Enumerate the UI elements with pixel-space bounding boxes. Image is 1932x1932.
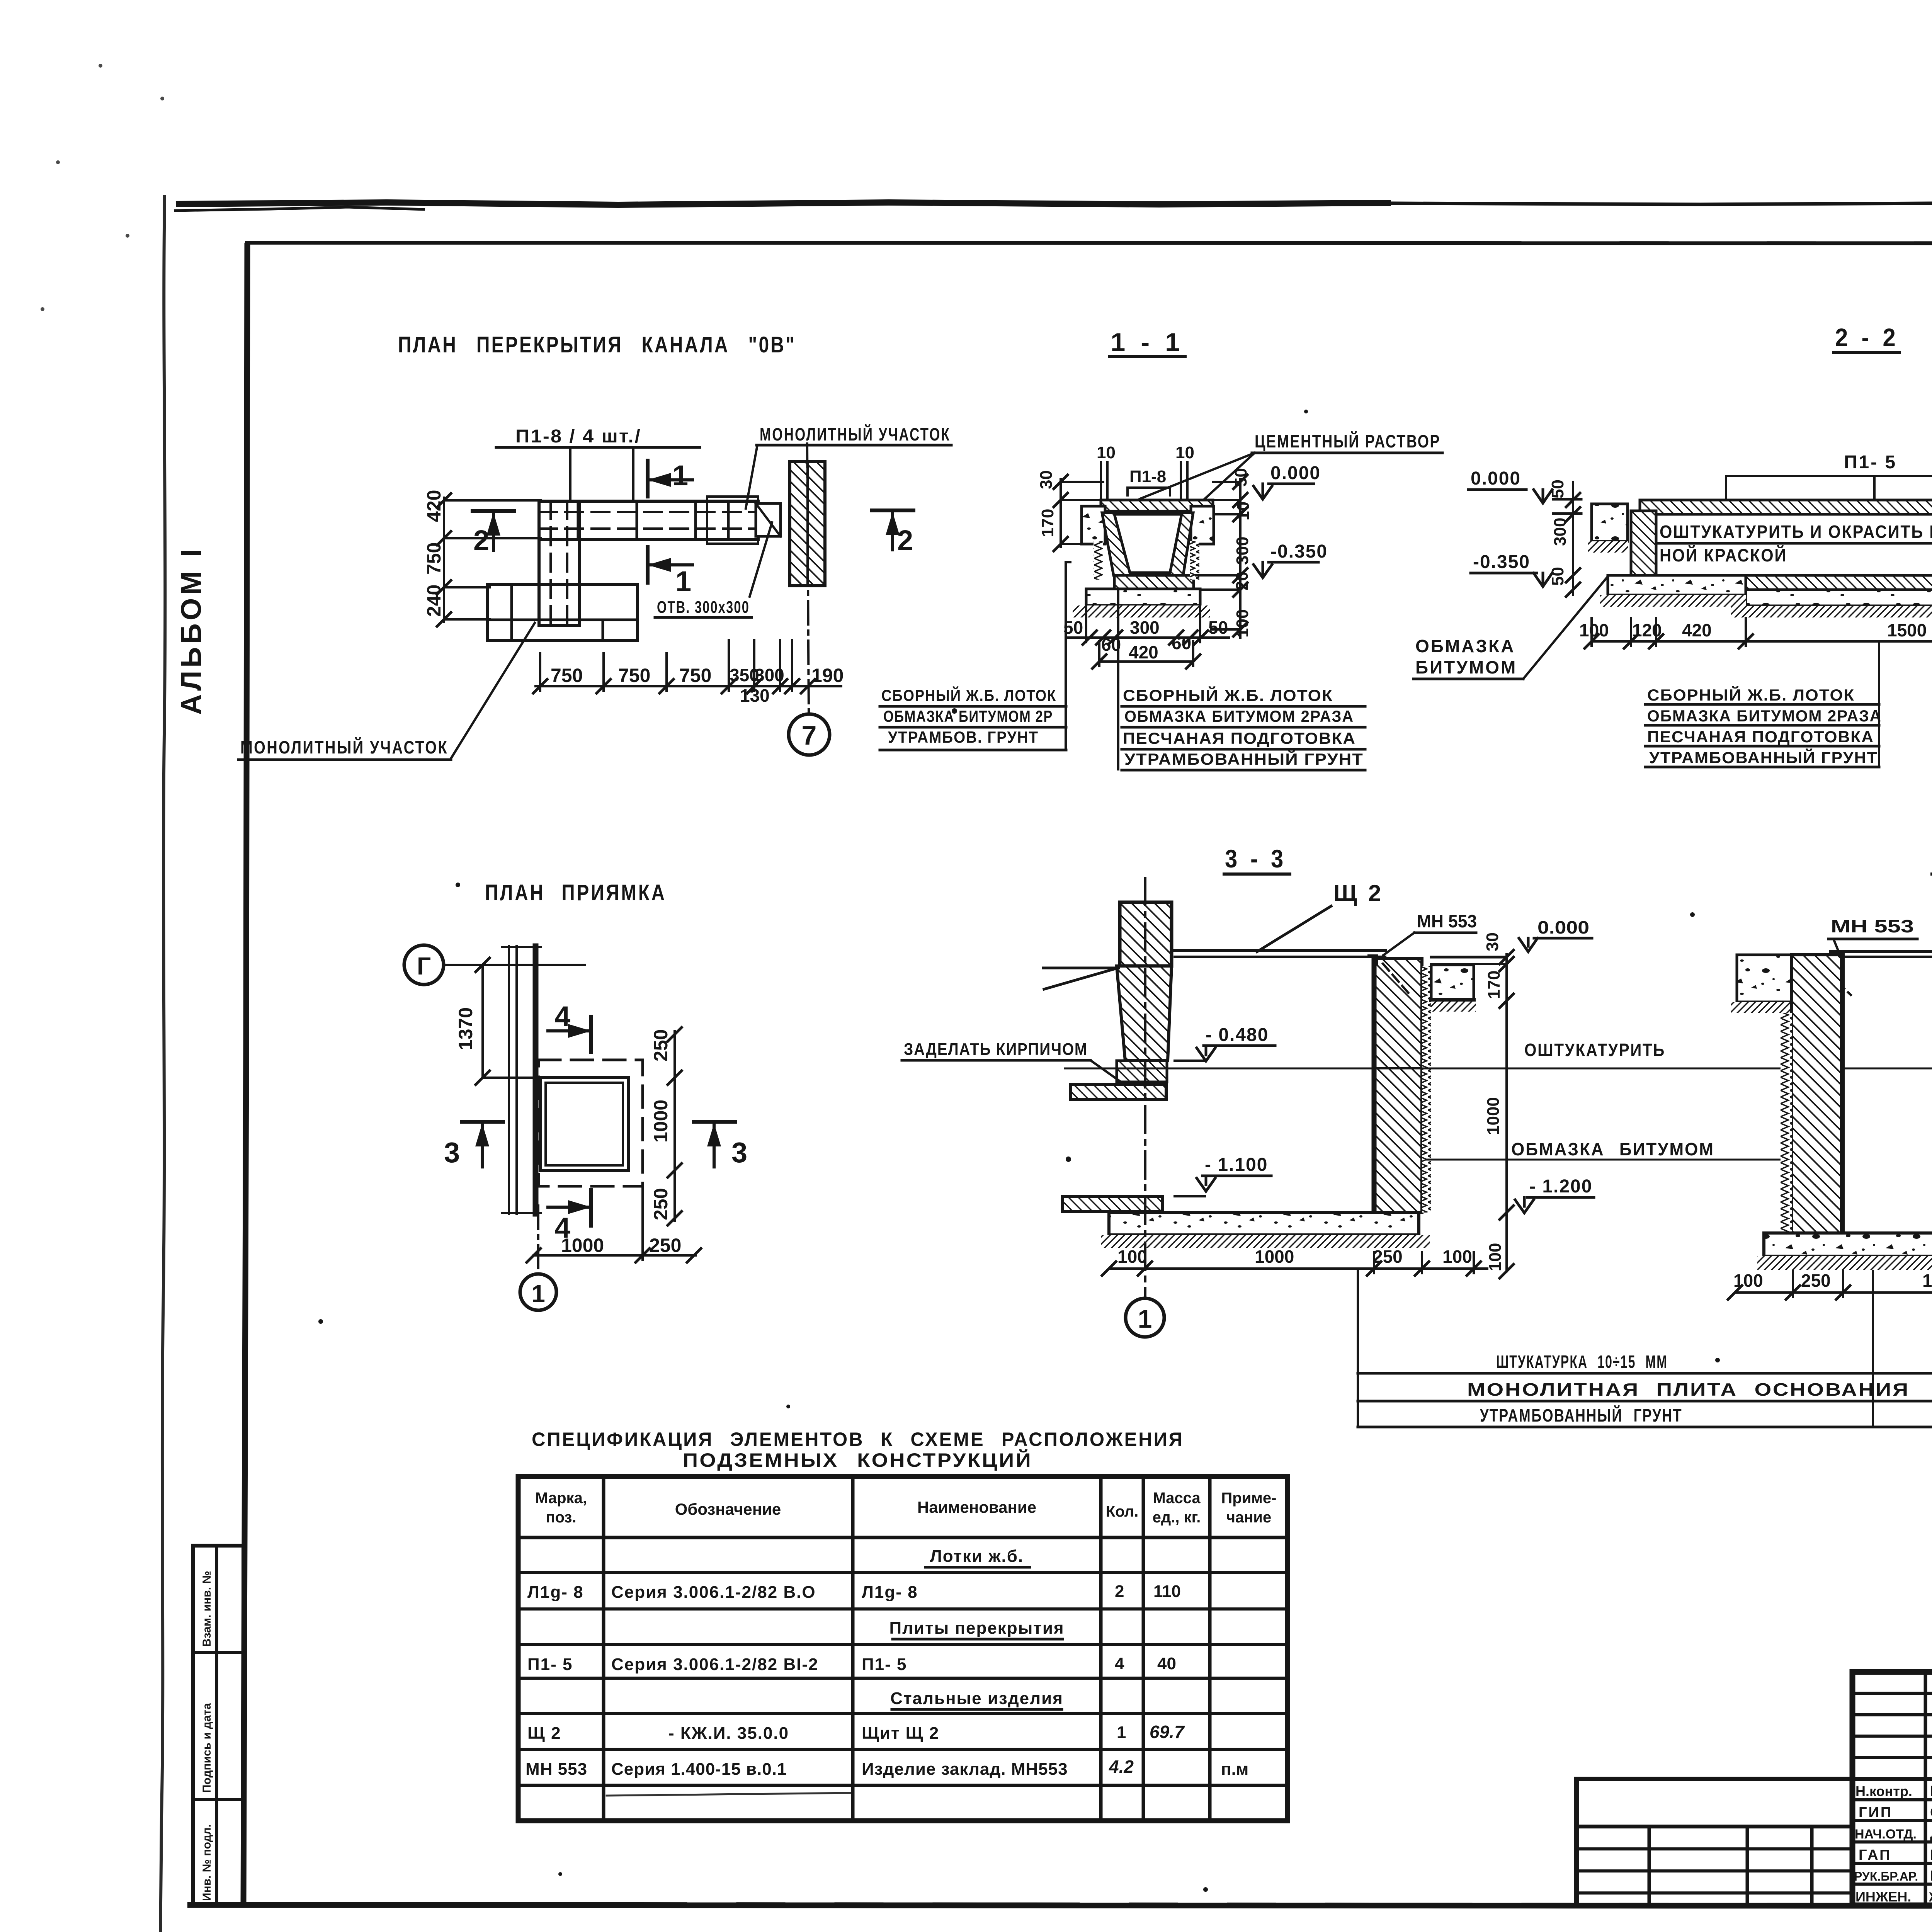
left floor slab [1737, 955, 1792, 1002]
svg-text:1000: 1000 [650, 1100, 672, 1143]
svg-text:МН 553: МН 553 [526, 1760, 587, 1779]
brick infill piece [1117, 1061, 1167, 1082]
axis bubble 1 [1126, 1298, 1164, 1337]
svg-text:100: 100 [1442, 1247, 1472, 1267]
svg-text:-0.350: -0.350 [1473, 552, 1530, 572]
svg-text:УТРАМБОВАННЫЙ ГРУНТ: УТРАМБОВАННЫЙ ГРУНТ [1649, 748, 1878, 767]
svg-text:ИНЖЕН.: ИНЖЕН. [1855, 1889, 1911, 1905]
axis line to bubble 1 [537, 1206, 539, 1274]
svg-text:100: 100 [1233, 609, 1252, 638]
shared line at plaster level [1065, 1068, 1932, 1070]
svg-text:750: 750 [618, 665, 650, 686]
svg-text:Приме-: Приме- [1221, 1490, 1277, 1507]
svg-text:1: 1 [675, 565, 691, 597]
svg-text:СПЕЦИФИКАЦИЯ ЭЛЕМЕНТОВ К СХЕМЕ: СПЕЦИФИКАЦИЯ ЭЛЕМЕНТОВ К СХЕМЕ РАСПОЛОЖЕ… [532, 1429, 1184, 1450]
svg-text:300: 300 [1130, 617, 1160, 638]
svg-text:100: 100 [1733, 1270, 1763, 1291]
floor slab right of pit wall [1431, 965, 1474, 1000]
left wall pier hatched [1631, 511, 1656, 579]
signature rows [1852, 1777, 1932, 1781]
svg-text:4: 4 [1115, 1654, 1124, 1673]
left extension table [1577, 1779, 1852, 1905]
svg-text:Щит Щ 2: Щит Щ 2 [862, 1724, 939, 1743]
svg-text:ОБМАЗКА БИТУМОМ 2РАЗА: ОБМАЗКА БИТУМОМ 2РАЗА [1124, 707, 1354, 725]
svg-text:50: 50 [1231, 468, 1250, 487]
svg-text:УТРАМБОВАННЫЙ ГРУНТ: УТРАМБОВАННЫЙ ГРУНТ [1480, 1405, 1682, 1425]
scanned paper left edge [160, 195, 165, 1932]
trough walls hatched [1102, 513, 1193, 575]
trough floor slab [1114, 575, 1194, 589]
pit wall inner square [546, 1083, 623, 1165]
svg-text:1: 1 [1117, 1723, 1126, 1742]
svg-text:250: 250 [1373, 1247, 1403, 1267]
svg-text:П1- 5: П1- 5 [1844, 452, 1897, 473]
svg-text:170: 170 [1485, 971, 1503, 999]
svg-text:ед., кг.: ед., кг. [1153, 1509, 1201, 1526]
bottom dim chain 1000/250 [534, 1254, 696, 1257]
svg-text:- 0.480: - 0.480 [1206, 1025, 1269, 1045]
svg-text:Пивоваров: Пивоваров [1930, 1868, 1932, 1884]
embed МН553 at wall top [1369, 956, 1377, 964]
svg-text:20: 20 [1233, 571, 1252, 590]
svg-text:Дроханов: Дроханов [1930, 1826, 1932, 1842]
pit outer dashed contour [539, 1060, 643, 1186]
pit right wall hatched [1374, 958, 1422, 1213]
backfill left [1781, 1013, 1792, 1236]
svg-text:Щ 2: Щ 2 [1333, 880, 1383, 906]
svg-text:Плиты перекрытия: Плиты перекрытия [889, 1619, 1064, 1638]
building floor slab (left, hatched) [1070, 1084, 1166, 1099]
right dim chain 250/1000/250 [673, 1031, 676, 1221]
svg-text:РУК.БР.АР.: РУК.БР.АР. [1854, 1869, 1918, 1883]
svg-text:0.000: 0.000 [1537, 917, 1589, 937]
channel horizontal band (plates П1-8) [539, 501, 758, 539]
right concrete block [1191, 506, 1214, 544]
svg-text:П1- 5: П1- 5 [527, 1655, 573, 1674]
svg-text:30: 30 [1483, 932, 1502, 951]
floor level continuation marks [1553, 498, 1581, 501]
svg-text:НАЧ.ОТД.: НАЧ.ОТД. [1855, 1827, 1917, 1842]
svg-text:БИТУМОМ: БИТУМОМ [1415, 657, 1517, 677]
svg-text:7: 7 [802, 720, 817, 750]
svg-text:МН 553: МН 553 [1417, 911, 1477, 931]
svg-text:Лотки ж.б.: Лотки ж.б. [930, 1547, 1024, 1566]
svg-text:Серия 3.006.1-2/82 ВI-2: Серия 3.006.1-2/82 ВI-2 [611, 1655, 819, 1674]
svg-text:100: 100 [1486, 1243, 1505, 1271]
svg-text:Марка,: Марка, [535, 1490, 587, 1507]
svg-text:250: 250 [1801, 1270, 1831, 1291]
svg-text:Взам. инв. №: Взам. инв. № [201, 1571, 213, 1647]
svg-text:П1- 5: П1- 5 [862, 1655, 907, 1674]
svg-text:ОТВ. 300х300: ОТВ. 300х300 [657, 598, 750, 617]
svg-text:1: 1 [531, 1280, 545, 1308]
tamped ground hatch [1073, 605, 1210, 617]
steel lid [1831, 950, 1932, 953]
svg-text:МОНОЛИТНЫЙ УЧАСТОК: МОНОЛИТНЫЙ УЧАСТОК [240, 737, 448, 757]
svg-text:300: 300 [1233, 537, 1252, 565]
channel vertical band [539, 501, 580, 626]
floor 0.000 line [1431, 956, 1507, 959]
tamped ground under pit floor [1101, 1235, 1430, 1248]
floor slab left segment [1608, 575, 1746, 595]
svg-text:Н.контр.: Н.контр. [1855, 1783, 1912, 1799]
scanned paper top edge smudge [176, 202, 1391, 205]
svg-text:Инв. № подл.: Инв. № подл. [201, 1824, 213, 1901]
svg-text:НОЙ КРАСКОЙ: НОЙ КРАСКОЙ [1660, 545, 1787, 565]
spec table outer border [518, 1476, 1287, 1821]
svg-text:190: 190 [811, 665, 844, 686]
svg-text:250: 250 [650, 1029, 672, 1061]
bitum coating marks right [1190, 541, 1199, 580]
right dim chain 50/10/300/20/100 [1239, 479, 1242, 638]
svg-text:1: 1 [1138, 1304, 1152, 1333]
wall centerline down to axis bubble [807, 444, 809, 713]
svg-text:Л1g- 8: Л1g- 8 [862, 1583, 918, 1602]
svg-text:100: 100 [1579, 620, 1609, 640]
svg-text:30: 30 [1037, 470, 1056, 489]
svg-text:3: 3 [444, 1136, 460, 1168]
svg-text:СБОРНЫЙ Ж.Б. ЛОТОК: СБОРНЫЙ Ж.Б. ЛОТОК [881, 686, 1056, 704]
svg-text:Л1g- 8: Л1g- 8 [527, 1583, 584, 1602]
svg-text:1000: 1000 [561, 1235, 604, 1256]
svg-text:750: 750 [423, 543, 445, 575]
opening отв.300х300 square [756, 503, 781, 536]
wall band [508, 946, 510, 1214]
scan smudge in last row [607, 1793, 850, 1796]
svg-text:1000: 1000 [1922, 1270, 1932, 1291]
pit wall outer square [540, 1078, 628, 1170]
svg-text:ОБМАЗКА БИТУМОМ: ОБМАЗКА БИТУМОМ [1511, 1139, 1714, 1159]
svg-text:ШТУКАТУРКА 10÷15 ММ: ШТУКАТУРКА 10÷15 ММ [1496, 1352, 1668, 1372]
svg-text:130: 130 [740, 685, 770, 706]
svg-text:ОШТУКАТУРИТЬ: ОШТУКАТУРИТЬ [1524, 1040, 1665, 1060]
svg-text:СБОРНЫЙ Ж.Б. ЛОТОК: СБОРНЫЙ Ж.Б. ЛОТОК [1647, 685, 1855, 704]
bottom dim chain [1592, 640, 1932, 643]
left dimension chain [443, 498, 445, 622]
drawing frame inner border [243, 243, 247, 1905]
svg-text:2: 2 [897, 524, 913, 556]
svg-text:Подпись и дата: Подпись и дата [201, 1703, 213, 1793]
svg-text:АЛЬБОМ I: АЛЬБОМ I [175, 546, 207, 715]
svg-text:ЗАДЕЛАТЬ КИРПИЧОМ: ЗАДЕЛАТЬ КИРПИЧОМ [904, 1040, 1088, 1059]
plate joints [577, 501, 580, 539]
svg-text:чание: чание [1226, 1509, 1271, 1526]
svg-text:ПЕСЧАНАЯ ПОДГОТОВКА: ПЕСЧАНАЯ ПОДГОТОВКА [1647, 728, 1874, 746]
svg-text:250: 250 [650, 1188, 672, 1220]
right dim chain of 3-3 [1505, 954, 1508, 1271]
lower-left floor slab (hatched) [1063, 1196, 1162, 1211]
svg-text:Кол.: Кол. [1106, 1503, 1138, 1520]
upper empty signature rows [1852, 1692, 1932, 1695]
title block outer border [1852, 1672, 1932, 1905]
svg-text:- 1.200: - 1.200 [1529, 1176, 1592, 1197]
axis bubble 7 [789, 714, 830, 755]
svg-text:4.2: 4.2 [1109, 1757, 1134, 1777]
pit floor slab [1764, 1233, 1932, 1256]
svg-text:10: 10 [1234, 502, 1253, 520]
section flag 1 (bottom) [646, 547, 650, 583]
svg-text:2: 2 [473, 524, 489, 556]
svg-text:п.м: п.м [1221, 1760, 1248, 1779]
svg-text:ГАП: ГАП [1859, 1847, 1891, 1863]
svg-text:ОБМАЗКА БИТУМОМ 2Р: ОБМАЗКА БИТУМОМ 2Р [883, 707, 1053, 725]
dim 420 line [1099, 660, 1193, 663]
row lines [518, 1536, 1287, 1539]
cast-in-place segment outline [707, 497, 758, 544]
steel lid Щ2 [1175, 949, 1385, 952]
svg-text:1: 1 [672, 459, 688, 492]
svg-text:69.7: 69.7 [1150, 1722, 1185, 1742]
svg-text:СБОРНЫЙ Ж.Б. ЛОТОК: СБОРНЫЙ Ж.Б. ЛОТОК [1123, 686, 1333, 704]
svg-text:Наименование: Наименование [917, 1498, 1036, 1516]
tamped ground under channel [1731, 606, 1932, 617]
svg-text:ПЛАН ПЕРЕКРЫТИЯ КАНАЛА "0В": ПЛАН ПЕРЕКРЫТИЯ КАНАЛА "0В" [398, 332, 796, 357]
sand bedding under channel [1746, 590, 1932, 606]
leader to notes (left) [1878, 641, 1880, 767]
channel floor slab hatched [1746, 575, 1932, 590]
svg-text:Шелаев: Шелаев [1930, 1847, 1932, 1863]
wall section hatched (right) [790, 462, 825, 586]
monolithic block lower left [488, 584, 638, 640]
svg-text:50: 50 [1548, 567, 1567, 586]
svg-text:170: 170 [1038, 509, 1057, 537]
svg-text:10: 10 [1175, 443, 1194, 462]
svg-text:ОБМАЗКА: ОБМАЗКА [1415, 636, 1515, 656]
svg-text:1500: 1500 [1887, 620, 1927, 640]
svg-text:Серия 1.400-15 в.0.1: Серия 1.400-15 в.0.1 [611, 1760, 787, 1779]
svg-text:250: 250 [649, 1235, 681, 1256]
svg-text:300: 300 [1551, 518, 1570, 546]
axis bubble 1 [520, 1274, 556, 1310]
svg-text:- КЖ.И. 35.0.0: - КЖ.И. 35.0.0 [668, 1724, 789, 1743]
svg-text:420: 420 [423, 490, 445, 522]
svg-text:УТРАМБОВАННЫЙ ГРУНТ: УТРАМБОВАННЫЙ ГРУНТ [1124, 750, 1364, 768]
shared line at bitumen level [1426, 1159, 1782, 1161]
svg-text:420: 420 [1129, 642, 1158, 662]
pit floor slab (monolithic) [1109, 1213, 1419, 1235]
svg-text:750: 750 [679, 665, 711, 686]
svg-text:ГИП: ГИП [1859, 1804, 1893, 1821]
svg-text:4: 4 [554, 1000, 570, 1032]
svg-text:Стальные изделия: Стальные изделия [890, 1689, 1063, 1708]
bitum coating marks left [1094, 541, 1103, 580]
bottom dimension chain [536, 685, 841, 687]
svg-text:Масса: Масса [1153, 1490, 1201, 1507]
svg-text:1000: 1000 [1255, 1247, 1294, 1267]
ground line left [1043, 967, 1119, 969]
left concrete block [1592, 504, 1628, 541]
bottom dim chain of 4-4 [1735, 1291, 1932, 1294]
svg-text:0.000: 0.000 [1471, 468, 1521, 489]
svg-text:МОНОЛИТНАЯ ПЛИТА ОСНОВАНИЯ: МОНОЛИТНАЯ ПЛИТА ОСНОВАНИЯ [1467, 1379, 1910, 1400]
svg-text:Жеребчикова: Жеребчикова [1929, 1890, 1932, 1905]
svg-text:0.000: 0.000 [1270, 463, 1321, 483]
svg-text:ОШТУКАТУРИТЬ И ОКРАСИТЬ МАСЛЯ-: ОШТУКАТУРИТЬ И ОКРАСИТЬ МАСЛЯ- [1660, 522, 1932, 542]
svg-text:1370: 1370 [455, 1007, 476, 1050]
section flag 1 (top) [646, 461, 650, 497]
svg-text:2 - 2: 2 - 2 [1835, 323, 1899, 352]
svg-text:ПЛАН ПРИЯМКА: ПЛАН ПРИЯМКА [485, 880, 667, 905]
axis bubble Г [404, 945, 444, 985]
axis centerline [1144, 878, 1146, 1298]
svg-text:Степанова: Степанова [1930, 1804, 1932, 1821]
svg-text:240: 240 [423, 585, 445, 617]
svg-text:ПОДЗЕМНЫХ КОНСТРУКЦИЙ: ПОДЗЕМНЫХ КОНСТРУКЦИЙ [683, 1449, 1032, 1471]
svg-text:10: 10 [1097, 443, 1116, 462]
pilaster tapering part [1117, 966, 1172, 1061]
top cover slab П1-8 hatched [1101, 500, 1213, 511]
svg-text:МН 553: МН 553 [1831, 916, 1914, 936]
svg-text:МОНОЛИТНЫЙ УЧАСТОК: МОНОЛИТНЫЙ УЧАСТОК [760, 424, 951, 444]
left pit wall hatched [1792, 955, 1843, 1236]
svg-text:60: 60 [1172, 633, 1191, 653]
signature columns [1924, 1672, 1927, 1905]
left concrete block [1082, 506, 1105, 544]
section flag 2 (left) [473, 509, 514, 513]
svg-text:40: 40 [1157, 1654, 1176, 1673]
svg-text:П1-8: П1-8 [1129, 467, 1166, 486]
svg-text:100: 100 [1117, 1247, 1147, 1267]
svg-text:Щ 2: Щ 2 [527, 1724, 561, 1743]
left dim chain 50/300/50 [1572, 482, 1574, 595]
svg-text:ПЕСЧАНАЯ ПОДГОТОВКА: ПЕСЧАНАЯ ПОДГОТОВКА [1123, 729, 1356, 747]
stray specks [456, 883, 460, 887]
svg-text:Г: Г [417, 952, 431, 980]
svg-text:Шелаев: Шелаев [1930, 1783, 1932, 1799]
leader to cast-in-place section [746, 445, 757, 509]
svg-text:ОБМАЗКА БИТУМОМ 2РАЗА: ОБМАЗКА БИТУМОМ 2РАЗА [1647, 707, 1882, 725]
svg-text:1000: 1000 [1484, 1097, 1503, 1135]
bottom dim line 50/300/50 [1066, 636, 1229, 639]
svg-text:50: 50 [1548, 480, 1567, 498]
svg-text:-0.350: -0.350 [1270, 541, 1328, 562]
svg-text:Серия 3.006.1-2/82 В.О: Серия 3.006.1-2/82 В.О [611, 1583, 816, 1602]
building wall above floor (concrete pilaster top) [1120, 902, 1172, 966]
svg-text:ЦЕМЕНТНЫЙ РАСТВОР: ЦЕМЕНТНЫЙ РАСТВОР [1255, 431, 1440, 451]
svg-text:- 1.100: - 1.100 [1205, 1155, 1268, 1175]
leader to right note block [1117, 589, 1119, 769]
svg-text:1 - 1: 1 - 1 [1111, 328, 1184, 356]
svg-text:УТРАМБОВ. ГРУНТ: УТРАМБОВ. ГРУНТ [888, 728, 1039, 746]
svg-text:300: 300 [755, 665, 784, 685]
svg-text:3 - 3: 3 - 3 [1225, 844, 1287, 873]
dim 1370 vertical [481, 965, 484, 1078]
svg-text:110: 110 [1153, 1582, 1181, 1601]
svg-text:50: 50 [1208, 617, 1228, 638]
svg-text:П1-8 / 4 шт./: П1-8 / 4 шт./ [515, 426, 641, 447]
section flag 2 (right) [872, 509, 913, 512]
svg-text:750: 750 [551, 665, 583, 686]
left dim chain 30/170 [1060, 479, 1062, 547]
column lines [602, 1476, 605, 1821]
leaders to mortar joints [1140, 453, 1255, 499]
left margin stamp strip [193, 1546, 243, 1906]
svg-text:Изделие заклад. МН553: Изделие заклад. МН553 [862, 1760, 1068, 1779]
sand bedding [1086, 589, 1200, 605]
ground break diagonal [1044, 968, 1117, 989]
backfill strip right of wall [1422, 966, 1431, 1213]
bottom dim chain of 3-3 [1109, 1267, 1487, 1270]
svg-text:120: 120 [1632, 620, 1662, 640]
svg-text:поз.: поз. [546, 1509, 576, 1526]
svg-text:420: 420 [1682, 620, 1712, 640]
tamped ground under floor [1757, 1256, 1932, 1270]
svg-text:2: 2 [1115, 1582, 1124, 1601]
svg-text:3: 3 [731, 1136, 747, 1168]
svg-text:Обозначение: Обозначение [675, 1500, 781, 1518]
leaders to note block [1357, 1269, 1359, 1427]
leader to left note block [1066, 562, 1070, 749]
axis line from Г [444, 964, 585, 966]
cover slab П1-5 hatched [1640, 500, 1932, 514]
